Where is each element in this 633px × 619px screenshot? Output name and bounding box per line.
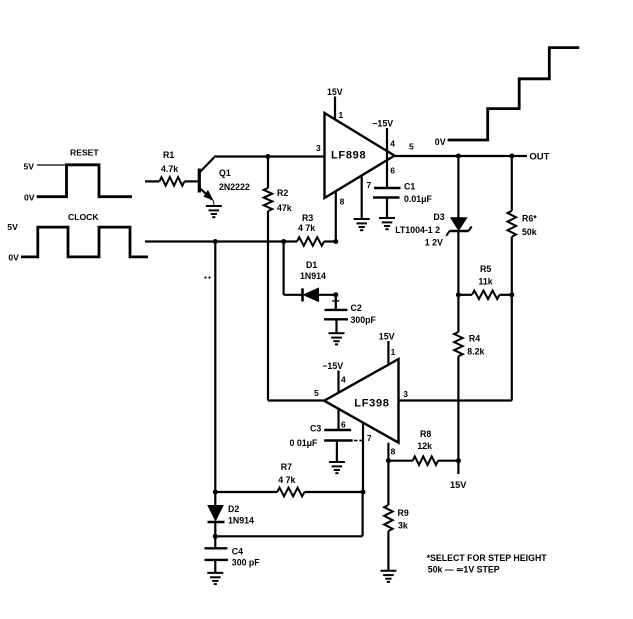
node junction R5 left [456,292,461,297]
svg-text:D1: D1 [306,260,317,270]
diode D1 labels [300,260,326,281]
svg-text:LF898: LF898 [331,150,366,162]
resistor R9 labels [398,508,409,531]
svg-text:300pF: 300pF [351,315,377,325]
wire RESET 5V dashed level line [37,164,65,166]
svg-text:−15V: −15V [322,361,343,371]
op-amp U2 name label [354,398,389,410]
svg-text:R1: R1 [163,150,174,160]
capacitor C4 labels [232,547,260,568]
pin 6 stub of U2 [337,409,339,430]
pin 7 stub of U2 [362,423,364,492]
node OUT label [529,152,549,163]
node junction output-D3 [456,154,461,159]
pin 6 label of U1 [390,166,395,176]
svg-text:4: 4 [390,139,395,149]
resistor R9 [384,461,393,571]
svg-text:6: 6 [390,166,395,176]
svg-text:5: 5 [314,388,319,398]
node RESET 5V level label [24,161,35,171]
svg-text:0V: 0V [24,192,35,202]
ground below C3 [329,462,345,473]
wire clock input line [145,240,297,242]
svg-text:R4: R4 [469,334,480,344]
ground at Q1 emitter [206,206,222,217]
wire staircase output waveform [448,48,580,140]
svg-text:15V: 15V [327,87,343,97]
svg-text:1: 1 [391,347,396,357]
svg-text:7: 7 [367,180,372,190]
svg-text:4 7k: 4 7k [298,223,315,233]
diode D2 [208,492,225,536]
pin 1 label of U2 [391,347,396,357]
transistor Q1 labels [219,168,250,192]
resistor R2 labels [277,188,292,213]
svg-text:−15V: −15V [372,119,393,129]
node junction D2 bottom [213,534,218,539]
resistor R4 labels [467,334,484,357]
power 15V at U2 pin 1 [379,332,395,366]
wire R2 line down to LF398 pin5 [268,242,324,401]
svg-text:3k: 3k [398,521,408,531]
power 15V at U1 pin 1 [327,87,343,120]
svg-text:*SELECT FOR STEP HEIGHT: *SELECT FOR STEP HEIGHT [427,553,548,563]
svg-text:5V: 5V [24,161,35,171]
svg-text:8.2k: 8.2k [467,347,484,357]
wire feedback R5 to pin3 of U2 [399,295,512,401]
pin 7 label of U2 [367,433,372,443]
svg-text:R2: R2 [277,188,288,198]
wire D1 branch [284,242,303,295]
capacitor C2 labels [351,303,377,325]
wire D2 bottom to pin7 line [215,492,362,536]
svg-text:4.7k: 4.7k [161,164,178,174]
node junction pin8-R8-R9 [386,458,391,463]
op-amp U2 LF398 triangle [324,359,398,443]
node junction output-R6 [509,154,514,159]
pin 8 stub of U2 [387,443,389,461]
svg-text:47k: 47k [277,203,292,213]
svg-text:C1: C1 [404,182,415,192]
svg-text:RESET: RESET [70,148,99,158]
svg-text:7: 7 [367,433,372,443]
pin 8 stub of U1 [335,191,337,241]
diode D3 labels [395,212,445,248]
svg-text:0V: 0V [435,137,446,147]
node staircase 0V label [435,137,446,147]
svg-text:LF398: LF398 [354,398,389,410]
node junction R3 right on pin8 line [333,239,338,244]
wire pin8 line down to C2 [332,295,339,310]
node note text [427,553,548,575]
node junction R7 right pin7 [361,490,366,495]
capacitor C1 labels [404,182,433,205]
pin 1 label of U1 [339,110,344,120]
pin 5 label of U1 [409,142,414,152]
svg-text:15V: 15V [450,480,467,490]
svg-text:C3: C3 [310,424,321,434]
node junction R8 right [456,458,461,463]
capacitor C3 [324,430,353,462]
resistor R1 labels [161,150,178,174]
wire collector to LF898 pin 3 [214,155,325,157]
svg-text:R9: R9 [398,508,409,518]
node junction clock-left [213,239,218,244]
capacitor C1 [373,188,401,218]
node RESET 0V level label [24,192,35,202]
node junction D1 right on pin8 line [333,292,338,297]
svg-text:C2: C2 [351,303,362,313]
node junction R2 top [265,154,270,159]
pin 4 label of U2 [341,375,346,385]
wire output to D3 [457,156,459,218]
svg-text:0 01μF: 0 01μF [290,438,319,448]
resistor R7 [215,488,363,497]
resistor R6 [508,156,517,295]
capacitor C2 [324,310,348,333]
svg-text:R8: R8 [420,429,431,439]
svg-text:3: 3 [316,143,321,153]
svg-text:CLOCK: CLOCK [68,212,99,222]
diode D2 labels [228,504,254,526]
svg-text:0V: 0V [8,252,19,262]
ground below C4 [207,573,223,584]
node CLOCK 0V level label [8,252,19,262]
ground below R9 [380,571,396,582]
pin 3 label of U2 [403,389,408,399]
svg-text:8: 8 [391,446,396,456]
pin 6 label of U2 [341,420,346,430]
svg-text:1: 1 [339,110,344,120]
svg-text:Q1: Q1 [219,168,231,178]
op-amp U1 name label [331,150,366,162]
pin 3 label of U1 [316,143,321,153]
svg-text:LT1004-1 2: LT1004-1 2 [395,225,440,235]
power -15V at U1 pin 4 [372,119,393,129]
capacitor C3 labels [290,424,322,449]
pin 8 label of U2 [391,446,396,456]
node scan specks [204,276,210,278]
wire dashes near pin7 [354,440,362,442]
ground below C2 [329,333,345,344]
resistor R5 labels [479,264,493,287]
resistor R3 [297,237,336,246]
pin 7 label of U1 [367,180,372,190]
svg-text:1N914: 1N914 [300,271,326,281]
transistor Q1 [199,158,215,207]
svg-text:D3: D3 [433,212,444,222]
svg-text:OUT: OUT [529,152,549,163]
svg-text:4 7k: 4 7k [278,475,295,485]
svg-text:300 pF: 300 pF [232,557,260,567]
capacitor C4 [205,536,229,573]
pin 4 label of U1 [390,139,395,149]
resistor R8 [388,456,458,465]
resistor R3 labels [298,213,315,233]
op-amp U1 LF898 triangle [325,113,395,198]
svg-text:D2: D2 [228,504,239,514]
node junction clock-D1 [281,239,286,244]
resistor R5 [458,291,511,300]
svg-text:5: 5 [409,142,414,152]
svg-text:50k: 50k [522,227,537,237]
svg-text:15V: 15V [379,332,395,342]
svg-text:C4: C4 [232,547,243,557]
power 15V below R8 [450,480,467,490]
svg-text:6: 6 [341,420,346,430]
svg-text:1 2V: 1 2V [425,238,443,248]
svg-text:R5: R5 [480,264,491,274]
power -15V at U2 pin 4 [322,361,343,393]
svg-text:1N914: 1N914 [228,516,254,526]
svg-text:R7: R7 [281,462,292,472]
resistor R2 [264,157,273,242]
wire RESET pulse waveform [37,165,132,197]
svg-text:0.01μF: 0.01μF [404,194,433,204]
node junction R7 left [213,490,218,495]
diode D3 zener [446,218,471,295]
resistor R4 [454,295,463,461]
svg-text:3: 3 [403,389,408,399]
wire -15V line through pin4 to C1 [386,128,388,188]
pin 7 stub of U1 [361,177,363,220]
wire left vertical clock to R7 [214,242,216,493]
svg-text:R6*: R6* [522,214,537,224]
svg-text:R3: R3 [302,213,313,223]
node CLOCK label [68,212,99,222]
svg-text:5V: 5V [7,222,18,232]
svg-text:2N2222: 2N2222 [219,182,250,192]
diode D1 [303,288,336,301]
node CLOCK 5V level label [7,222,18,232]
wire CLOCK pulse waveform [21,227,148,257]
wire U1 output to OUT [395,155,528,157]
node junction R5 right [509,292,514,297]
resistor R6 labels [522,214,537,238]
ground at U1 pin 7 [354,219,370,230]
pin 5 label of U2 [314,388,319,398]
svg-text:4: 4 [341,375,346,385]
pin 8 label of U1 [340,196,345,206]
svg-text:8: 8 [340,196,345,206]
svg-text:11k: 11k [479,277,493,287]
svg-text:12k: 12k [417,441,432,451]
resistor R1 [145,177,198,186]
ground below C1 [379,218,395,229]
svg-text:50k — ≃1V STEP: 50k — ≃1V STEP [428,565,500,575]
resistor R8 labels [417,429,432,451]
node RESET label [70,148,99,158]
resistor R7 labels [278,462,295,485]
wire R8 right to 15V [457,461,459,474]
